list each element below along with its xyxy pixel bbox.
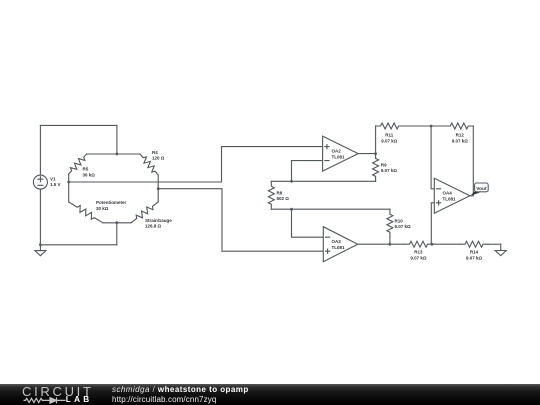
label V1 value	[50, 177, 61, 188]
svg-text:TL081: TL081	[332, 154, 346, 159]
resistor R12	[445, 123, 473, 129]
wire OA3 output row	[358, 243, 405, 245]
label R13 value	[410, 250, 427, 261]
wire bridge right output to OA3 plus	[158, 189, 323, 252]
wire R8 bottom net	[271, 208, 390, 210]
node bridge top	[116, 153, 119, 156]
svg-text:OA3: OA3	[332, 239, 342, 244]
footer title line	[112, 385, 249, 394]
svg-text:30 kΩ: 30 kΩ	[96, 206, 109, 211]
wire OA2 output	[358, 153, 375, 155]
svg-text:OA2: OA2	[332, 149, 342, 154]
label R5 value	[83, 167, 96, 178]
wire V1 top horizontal	[40, 124, 117, 126]
svg-text:9.07 kΩ: 9.07 kΩ	[395, 224, 412, 229]
wire OA3 minus input	[292, 209, 324, 237]
wire bridge bottom segment	[103, 222, 131, 224]
wire OA2 minus input	[292, 161, 323, 182]
flag Vout	[470, 183, 488, 196]
wire bridge left output to OA2 plus	[69, 147, 323, 182]
svg-text:OA4: OA4	[443, 191, 453, 196]
svg-text:9.07 kΩ: 9.07 kΩ	[410, 255, 427, 260]
svg-text:502 Ω: 502 Ω	[277, 196, 290, 201]
svg-text:9.07 kΩ: 9.07 kΩ	[452, 138, 469, 143]
label Potentiometer value	[96, 200, 127, 211]
node V1 ground junction	[39, 243, 42, 246]
potentiometer POT1	[69, 202, 103, 223]
ground GND2	[495, 244, 506, 255]
wire V1 top lead	[39, 125, 41, 175]
svg-text:126.8 Ω: 126.8 Ω	[145, 223, 162, 228]
logo diode	[45, 399, 66, 401]
op-amp OA2	[323, 136, 359, 171]
svg-text:R9: R9	[381, 163, 387, 168]
svg-text:1.5 V: 1.5 V	[50, 182, 61, 187]
node OA3 minus net	[290, 208, 293, 211]
node OA4 plus junction	[431, 243, 434, 246]
node bridge bottom	[115, 221, 118, 224]
node R11 R12 junction	[430, 125, 433, 128]
resistor R5	[69, 154, 87, 174]
wire bridge top feed	[116, 125, 118, 154]
footer url line	[112, 395, 216, 404]
wire OA4 minus input	[431, 126, 434, 189]
label StrainGauge value	[145, 218, 172, 229]
node OA2 minus net	[290, 180, 293, 183]
wire bridge left vertical	[68, 174, 70, 202]
wire OA4 output feedback	[470, 126, 473, 196]
label R10 value	[395, 219, 412, 230]
logo resistor diode glyph	[0, 384, 110, 405]
svg-text:9.07 kΩ: 9.07 kΩ	[381, 168, 398, 173]
resistor R9	[373, 154, 379, 182]
label R4 value	[152, 150, 165, 161]
svg-text:9.07 kΩ: 9.07 kΩ	[466, 255, 483, 260]
node OA2 output	[374, 152, 377, 155]
resistor R4	[140, 154, 158, 175]
wire R10 bottom lead	[389, 237, 391, 244]
wire bridge top segment	[87, 153, 140, 155]
svg-text:R14: R14	[470, 250, 479, 255]
svg-text:Vout: Vout	[476, 186, 487, 192]
svg-text:V1: V1	[50, 177, 56, 182]
resistor R11	[376, 123, 404, 129]
wire R14 to ground	[488, 243, 501, 245]
wire V1 bottom lead	[39, 189, 41, 245]
svg-text:R10: R10	[395, 219, 404, 224]
svg-text:TL081: TL081	[443, 196, 457, 201]
strain gauge SG1	[131, 202, 158, 223]
wire R11 to R12	[404, 125, 446, 127]
resistor R10	[387, 209, 393, 237]
logo LAB word	[66, 395, 93, 404]
wire bottom return	[40, 244, 116, 246]
svg-text:120 Ω: 120 Ω	[152, 155, 165, 160]
label R9 value	[381, 163, 398, 174]
svg-text:R11: R11	[385, 133, 394, 138]
voltage source V1	[33, 175, 47, 189]
label OA2	[332, 149, 346, 160]
label OA4	[443, 191, 457, 202]
svg-text:30 kΩ: 30 kΩ	[83, 172, 96, 177]
svg-text:R8: R8	[277, 190, 283, 195]
footer bar	[0, 384, 540, 405]
label R14 value	[466, 250, 483, 261]
wire OA2 output up	[375, 126, 377, 154]
svg-text:R4: R4	[152, 150, 158, 155]
resistor R14	[460, 241, 488, 247]
resistor R8	[268, 181, 274, 209]
wire R13 to R14	[433, 243, 461, 245]
ground GND1	[35, 245, 46, 256]
logo CIRCUIT word	[22, 384, 94, 399]
svg-text:Potentiometer: Potentiometer	[96, 200, 127, 205]
svg-text:StrainGauge: StrainGauge	[145, 218, 172, 223]
svg-text:9.07 kΩ: 9.07 kΩ	[381, 138, 398, 143]
label R8 value	[277, 190, 290, 201]
logo resistor zigzag	[24, 398, 45, 402]
node bridge left output	[67, 181, 70, 184]
svg-text:R12: R12	[456, 133, 465, 138]
label R11 value	[381, 133, 398, 144]
svg-text:R13: R13	[414, 250, 423, 255]
wire bridge right vertical	[157, 175, 159, 202]
wire R8 top net	[271, 180, 375, 182]
resistor R13	[405, 241, 433, 247]
node R10 output junction	[389, 243, 392, 246]
op-amp OA3	[323, 227, 358, 262]
label OA3	[332, 239, 346, 250]
label R12 value	[452, 133, 469, 144]
wire bridge bottom drop	[116, 223, 118, 245]
svg-text:TL081: TL081	[332, 245, 346, 250]
svg-text:R5: R5	[83, 167, 89, 172]
wire OA4 plus input	[431, 203, 434, 244]
node bridge right output	[157, 187, 160, 190]
op-amp OA4	[434, 178, 470, 213]
